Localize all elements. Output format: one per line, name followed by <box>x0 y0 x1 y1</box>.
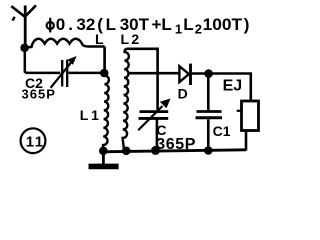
junction dot C/rail <box>151 146 160 155</box>
svg-text:11: 11 <box>26 133 45 150</box>
junction dot L2/rail <box>122 147 131 156</box>
wire loop1 left side <box>25 47 61 73</box>
node A junction dot (antenna/coil L/C2) <box>20 44 29 53</box>
ground <box>89 152 119 166</box>
svg-text:.: . <box>68 15 73 34</box>
svg-text:0: 0 <box>56 15 65 34</box>
svg-text:+L: +L <box>152 15 172 34</box>
earphone left terminal tick <box>237 110 241 112</box>
wire tank top <box>127 49 158 110</box>
inductor L2 <box>123 49 129 149</box>
svg-text:365P: 365P <box>22 86 56 101</box>
svg-text:L: L <box>183 15 193 34</box>
bottom rail <box>100 150 247 152</box>
node B junction dot (L/L1/C2) <box>100 69 109 78</box>
svg-text:1: 1 <box>175 21 182 36</box>
capacitor C2 plates <box>62 60 67 88</box>
svg-text:L: L <box>106 15 116 34</box>
caption phi symbol <box>47 18 54 33</box>
earphone EJ box <box>242 101 259 131</box>
wire earphone to rail <box>245 131 248 151</box>
wire C lower to rail <box>156 120 159 150</box>
svg-text:100T: 100T <box>203 15 243 34</box>
caption text 0.32(L30T+L1L2100T) <box>56 15 250 36</box>
svg-text:D: D <box>178 86 188 102</box>
svg-text:(: ( <box>97 15 103 34</box>
svg-text:32: 32 <box>76 15 95 34</box>
wire mid rail L2 to diode <box>128 72 179 75</box>
variable capacitor C plates <box>139 112 169 119</box>
capacitor C1 <box>196 77 223 149</box>
svg-text:EJ: EJ <box>223 78 243 95</box>
junction dot C1/rail <box>204 146 213 155</box>
svg-text:L1: L1 <box>80 107 102 123</box>
figure number 11 <box>21 128 46 153</box>
antenna <box>11 5 36 45</box>
svg-text:C1: C1 <box>213 123 231 139</box>
wire loop1 right side <box>103 47 106 71</box>
wire diode to right corner <box>192 74 251 102</box>
C arrow <box>138 99 170 131</box>
svg-text:): ) <box>244 15 250 34</box>
inductor L1 <box>103 76 109 150</box>
svg-text:2: 2 <box>195 21 202 36</box>
C2 arrow <box>51 56 77 88</box>
coil L <box>27 39 105 48</box>
node C junction dot (diode/C1/EJ) <box>204 69 213 78</box>
wire C2 to node B <box>69 72 102 75</box>
junction dot L1/rail <box>99 147 108 156</box>
diode D <box>179 64 190 85</box>
svg-text:30T: 30T <box>120 15 150 34</box>
